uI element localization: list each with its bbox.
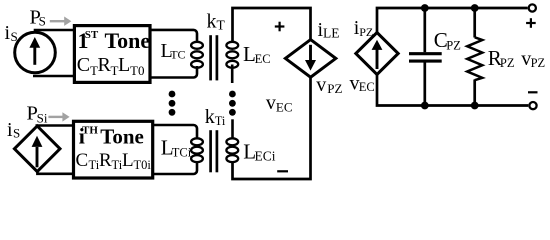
resistor RPZ zigzag <box>467 37 482 80</box>
svg-text:EC: EC <box>255 52 271 66</box>
svg-text:S: S <box>13 126 20 141</box>
svg-text:Tone: Tone <box>105 28 151 53</box>
wire: diamond iS bottom to box2 <box>37 172 74 174</box>
dependent source diamond iLE <box>285 40 335 78</box>
arrow inside circle (up) <box>33 47 36 65</box>
dependent current source diamond iS <box>14 126 60 172</box>
svg-text:S: S <box>39 14 46 29</box>
junction dots <box>421 4 479 109</box>
svg-text:Tone: Tone <box>100 125 144 149</box>
inductor LTCi coil loops <box>191 138 203 162</box>
transformer T1 core bars <box>209 35 212 80</box>
svg-text:L: L <box>122 150 134 171</box>
wire: bottom rail right circuit <box>377 74 528 106</box>
arrow inside iPZ (up) <box>376 49 379 70</box>
svg-text:ECi: ECi <box>255 149 276 164</box>
svg-text:v: v <box>316 74 326 96</box>
svg-text:PZ: PZ <box>446 38 461 52</box>
inductor LECi coil loops <box>226 138 238 162</box>
wire: box2 right bottom to LTCi coil <box>153 162 197 174</box>
plus sign (vEC +) <box>275 22 285 32</box>
wire: box1 right bottom to LTC coil <box>150 66 197 78</box>
capacitor CPZ stems <box>423 8 426 52</box>
box ith tone <box>74 121 153 178</box>
svg-text:PZ: PZ <box>531 56 546 70</box>
wire: LEC top to rail and rail to iLE diamond <box>233 8 311 42</box>
ellipsis dots column left <box>169 91 176 116</box>
inductor LEC coil loops <box>226 42 238 68</box>
wire: box1 right top to LTC coil <box>150 30 197 42</box>
capacitor CPZ plates <box>409 52 442 55</box>
gray power arrow PS <box>50 17 72 26</box>
ellipsis dots column right <box>229 91 236 116</box>
svg-text:LE: LE <box>323 26 340 41</box>
wire: circle top to box1 <box>35 30 75 32</box>
svg-text:Si: Si <box>37 110 48 125</box>
arrow inside iLE (down) <box>309 45 312 62</box>
svg-text:k: k <box>207 10 217 32</box>
svg-text:EC: EC <box>276 100 293 115</box>
svg-text:C: C <box>77 54 90 76</box>
minus sign (vPZ -) <box>528 91 538 93</box>
svg-text:T: T <box>217 17 226 32</box>
svg-text:ST: ST <box>85 29 99 41</box>
svg-text:PZ: PZ <box>327 81 342 96</box>
wire: LEC bottom stub <box>231 65 234 84</box>
dependent source diamond iPZ <box>356 33 398 75</box>
svg-text:TC: TC <box>170 47 185 61</box>
svg-text:R: R <box>99 150 112 171</box>
open terminal top <box>529 4 536 11</box>
svg-text:Ti: Ti <box>215 114 226 128</box>
svg-text:T0i: T0i <box>134 158 152 172</box>
wire: LECi top stub <box>231 119 234 138</box>
arrow inside iS diamond (up) <box>36 147 39 167</box>
svg-text:k: k <box>205 106 215 128</box>
svg-text:TCi: TCi <box>172 145 192 159</box>
inductor LTC coil loops <box>191 42 203 68</box>
svg-text:EC: EC <box>359 80 375 94</box>
svg-text:TH: TH <box>82 125 98 137</box>
wire: box2 right top to LTCi coil <box>153 125 197 138</box>
open terminal bottom <box>529 102 536 109</box>
resistor RPZ stems <box>473 8 476 38</box>
wire: top rail right circuit <box>377 8 528 33</box>
svg-text:v: v <box>266 92 276 114</box>
current source circle iS <box>15 32 56 73</box>
svg-text:C: C <box>76 150 89 171</box>
minus sign (vEC -) <box>277 170 288 172</box>
wire: circle bottom to box1 <box>33 75 75 78</box>
plus sign (vPZ +) <box>526 18 536 28</box>
svg-text:PZ: PZ <box>500 56 515 70</box>
wire: diamond iS top to box2 <box>37 126 74 128</box>
box 1st tone <box>74 26 150 83</box>
wire: iLE bottom to bottom rail to LECi <box>233 77 311 179</box>
transformer T2 core bars <box>209 130 212 172</box>
svg-text:L: L <box>118 54 130 76</box>
gray power arrow PSi <box>48 112 69 121</box>
svg-text:R: R <box>98 54 112 76</box>
svg-text:T0: T0 <box>130 63 144 78</box>
